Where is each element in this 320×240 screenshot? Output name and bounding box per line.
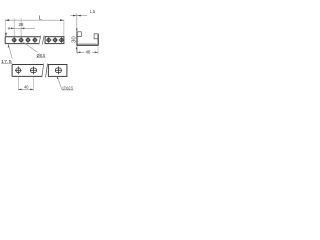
rail top view right part — [45, 37, 64, 44]
svg-text:Ø8.5: Ø8.5 — [37, 53, 46, 58]
dim 48 line left segment — [77, 51, 84, 53]
rail top view left part — [5, 37, 40, 44]
dim 48 extension left — [76, 46, 78, 54]
svg-text:48: 48 — [86, 49, 91, 55]
break line A top view — [39, 36, 41, 45]
slot B2 — [30, 66, 37, 74]
svg-text:40: 40 — [24, 84, 29, 90]
section right lip box — [94, 34, 98, 39]
dimension L line — [5, 19, 64, 21]
section bottom inner — [79, 43, 97, 45]
extension line left end — [4, 19, 6, 37]
slot B3 — [55, 66, 62, 74]
svg-text:17x10.5: 17x10.5 — [62, 85, 73, 90]
width arrow above strip — [5, 33, 7, 37]
leader dia 8.5 — [22, 42, 37, 53]
dimension 28 arrow A — [11, 28, 14, 30]
svg-text:17.5: 17.5 — [1, 59, 12, 65]
section 1.5 right arrow — [78, 15, 81, 17]
extension line hole2 — [20, 18, 22, 37]
dimension 28 tick — [8, 27, 10, 30]
dim 40 extension right — [33, 77, 35, 91]
dimension 28 line — [8, 27, 35, 29]
dimension 28 arrow B — [21, 28, 24, 30]
section height dim lower arrow — [76, 46, 78, 49]
hole T2 — [18, 37, 23, 43]
dim 40 line — [18, 88, 33, 90]
dim 48 extension right — [97, 46, 99, 54]
shelf 17.5 — [1, 62, 12, 64]
svg-text:L: L — [39, 15, 42, 21]
section height dim upper arrow — [76, 29, 78, 32]
leader 17x10.5 — [57, 77, 62, 90]
hole T5 — [46, 37, 51, 43]
rail front view right part — [48, 65, 67, 77]
dim 48 left arrow — [77, 52, 80, 54]
hole T7 — [59, 37, 64, 43]
extension line right end — [63, 20, 65, 37]
section 1.5 left arrow — [73, 15, 76, 17]
section height dim lower tail — [76, 49, 78, 52]
svg-text:1.5: 1.5 — [90, 9, 96, 14]
width arrow below strip — [8, 44, 10, 48]
shelf dia 8.5 — [36, 56, 46, 58]
break line B top view — [42, 36, 44, 45]
section bottom — [77, 44, 99, 46]
leader 17.5 — [8, 45, 12, 59]
hole T6 — [52, 37, 57, 43]
section right wall — [97, 34, 99, 46]
dim 40 right arrow — [30, 89, 33, 91]
extension line hole1 — [13, 18, 15, 37]
rail front view left part — [12, 65, 43, 77]
leader 17x10.5 arrow — [57, 77, 58, 80]
hole T1 — [12, 37, 17, 43]
section left wall — [76, 32, 78, 46]
hole T4 — [32, 37, 37, 43]
hole B1 — [15, 66, 22, 74]
hole T3 — [25, 37, 30, 43]
dim 40 extension left — [17, 77, 19, 91]
dimension L right arrow — [60, 19, 64, 21]
dim 48 right arrow — [95, 52, 98, 54]
dim 40 left arrow — [18, 89, 21, 91]
break line B front view — [46, 64, 48, 78]
section left lip box — [77, 32, 81, 37]
svg-text:28: 28 — [19, 22, 24, 28]
section 1.5 extension line — [76, 13, 78, 32]
dim 48 line right segment — [92, 51, 98, 53]
section 1.5 dim line — [70, 15, 87, 17]
break line A front view — [42, 64, 44, 78]
shelf 17x10.5 — [62, 89, 74, 91]
dimension L left arrow — [5, 19, 9, 21]
